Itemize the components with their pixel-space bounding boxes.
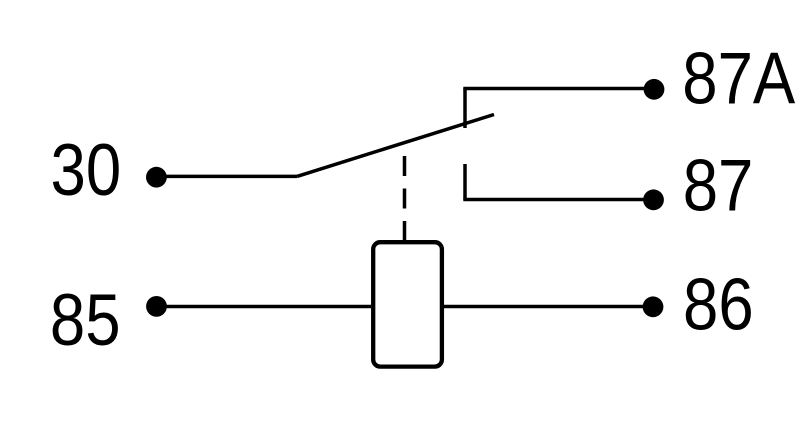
node terminal 87 (dot) (643, 189, 664, 210)
svg-text:30: 30 (51, 130, 122, 211)
node terminal 87A (dot) (644, 79, 665, 100)
svg-text:87: 87 (683, 145, 754, 226)
node terminal 30 (dot) (146, 167, 167, 188)
svg-text:86: 86 (683, 264, 754, 345)
wire 85 to coil (155, 305, 371, 309)
wire 87 horizontal (463, 198, 653, 202)
svg-text:85: 85 (50, 280, 121, 361)
switch armature (common 30, diagonal) (297, 115, 494, 177)
svg-text:87A: 87A (682, 38, 795, 119)
node terminal 85 (dot) (146, 296, 167, 317)
contact 87 vertical stub (463, 164, 467, 200)
node terminal 86 (dot) (643, 296, 664, 317)
wire 30 horizontal (156, 175, 297, 179)
wire 87A horizontal (463, 87, 654, 91)
relay coil K1 (rectangle) (373, 242, 442, 366)
contact 87A vertical stub (463, 89, 467, 129)
wire coil to 86 (444, 305, 652, 309)
actuator link (dashed) (403, 156, 407, 241)
